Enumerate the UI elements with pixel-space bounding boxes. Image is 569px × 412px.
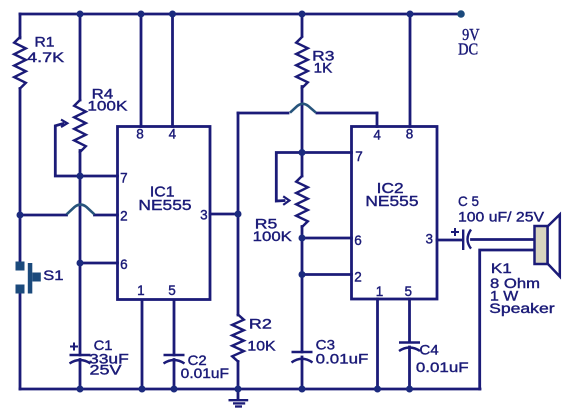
label K1 speaker [489, 260, 555, 316]
svg-text:100 uF/ 25V: 100 uF/ 25V [458, 209, 545, 225]
wire R4 wiper arm [55, 124, 80, 176]
switch S1 [16, 262, 41, 294]
wire pin7 IC1 [80, 175, 118, 178]
wire R4 bottom [79, 151, 82, 177]
node junction ground rail / C4 [406, 386, 413, 393]
wire C5 to speaker [472, 238, 535, 241]
wire pin2 IC2 [302, 273, 352, 276]
label R1 [27, 33, 65, 65]
wire C4 to rail [408, 347, 411, 389]
wire R5 wiper arm [276, 153, 302, 202]
svg-text:7: 7 [120, 170, 128, 185]
svg-text:2: 2 [120, 209, 128, 224]
svg-text:S1: S1 [43, 267, 64, 283]
node junction V+ rail / R4 top [77, 11, 84, 18]
wire pin8 IC2 [409, 14, 412, 127]
svg-text:1: 1 [376, 284, 384, 299]
svg-text:0.01uF: 0.01uF [181, 365, 229, 381]
speaker K1 [535, 215, 560, 277]
node junction C1 / IC1 pin 6 [77, 260, 84, 267]
wire left rail upper [19, 14, 22, 38]
wire pin2 IC2 column to C3 [301, 275, 304, 353]
wire pin4 IC1 [171, 14, 174, 127]
wire pin1 IC2 [376, 299, 379, 389]
svg-text:R2: R2 [249, 316, 272, 332]
svg-text:NE555: NE555 [138, 197, 191, 214]
svg-text:4: 4 [169, 127, 177, 142]
svg-text:8: 8 [136, 127, 144, 142]
svg-text:Speaker: Speaker [489, 300, 555, 316]
resistor R2 [232, 315, 244, 362]
svg-text:0.01uF: 0.01uF [316, 350, 369, 366]
wire R3 to R5 [301, 87, 304, 177]
node junction V+ rail / IC1 pin 8 [138, 11, 145, 18]
capacitor C5 [451, 228, 471, 250]
wire cross link left [238, 112, 288, 115]
svg-text:4.7K: 4.7K [27, 49, 65, 65]
label 9V DC [458, 25, 479, 59]
wire pin6 IC1 [80, 262, 118, 265]
wire node column x238 upper [237, 113, 240, 214]
wire left rail lower [19, 287, 22, 389]
op-amp box IC1 (NE555) [118, 127, 211, 300]
wire R4 top [79, 14, 82, 100]
node 9V supply terminal [457, 10, 465, 18]
svg-text:5: 5 [405, 284, 413, 299]
svg-text:0.01uF: 0.01uF [416, 359, 469, 375]
wire left rail middle [19, 89, 22, 269]
node junction C3 column / IC2 pin 2 [299, 271, 306, 278]
wire pin5 IC1 to C2 [173, 300, 176, 355]
svg-text:K1: K1 [491, 260, 512, 276]
wire R3 top [301, 14, 304, 36]
node junction ground rail / IC2 pin 1 [374, 386, 381, 393]
wire pin6 IC2 [302, 237, 352, 240]
svg-text:NE555: NE555 [365, 193, 418, 210]
svg-text:5: 5 [168, 283, 176, 298]
pot arrow R5 [283, 196, 289, 205]
wire top rail [20, 13, 461, 16]
wire cross link right [317, 112, 377, 115]
svg-text:100K: 100K [253, 228, 293, 244]
svg-text:3: 3 [200, 208, 208, 223]
hop cross-link over R3 column [290, 104, 316, 113]
wire pin2 IC1 right [95, 214, 118, 217]
wire C2 to rail [173, 360, 176, 390]
wire pin8 IC1 [140, 14, 143, 127]
svg-text:100K: 100K [87, 97, 128, 113]
label IC1 [138, 184, 191, 214]
node junction R4 wiper / IC1 pin 7 [77, 173, 84, 180]
svg-text:DC: DC [458, 40, 478, 59]
wire pin3 IC1 [210, 213, 238, 216]
svg-text:C 5: C 5 [458, 193, 479, 209]
capacitor C3 [292, 352, 313, 363]
wire pin4 IC2 [376, 113, 379, 127]
node junction V+ rail / R3 top [299, 11, 306, 18]
node junction ground rail / R2 and ground symbol [235, 386, 242, 393]
wire R5 bottom [301, 227, 304, 275]
label C3 [316, 336, 369, 366]
resistor R4 (pot body) [74, 100, 86, 152]
wire pin7 IC2 [302, 151, 352, 154]
hop pin2-IC1 over R4 column [67, 205, 95, 215]
wire node column x238 to R2 [237, 214, 240, 315]
label C2 [181, 352, 229, 381]
wire pin2 IC1 left [20, 214, 67, 217]
svg-text:7: 7 [355, 149, 363, 164]
svg-text:1K: 1K [314, 60, 333, 76]
wire C3 to rail [301, 357, 304, 389]
label C4 [416, 342, 469, 376]
label R4 [87, 86, 128, 114]
wire R2 to rail [237, 362, 240, 390]
resistor R1 [14, 37, 26, 89]
pot arrow R4 [61, 120, 67, 127]
label R2 [247, 316, 276, 354]
pin labels IC1 [120, 127, 208, 299]
node junction ground rail / C2 [171, 386, 178, 393]
wire speaker return [480, 250, 535, 389]
label R3 [312, 48, 335, 76]
svg-text:2: 2 [354, 270, 362, 285]
svg-text:6: 6 [120, 257, 128, 272]
pin labels IC2 [354, 127, 433, 300]
node junction V+ rail / IC1 pin 4 [169, 11, 176, 18]
capacitor C2 [164, 355, 185, 364]
node junction R5 bottom / IC2 pin 6 [299, 235, 306, 242]
label C5 [458, 193, 545, 225]
capacitor C4 [399, 343, 420, 352]
label R5 [253, 216, 293, 244]
svg-text:25V: 25V [90, 362, 123, 378]
node junction R5 wiper / IC2 pin 7 [299, 149, 306, 156]
label C1 [89, 337, 129, 378]
wire R4-pin7 column [79, 176, 82, 263]
node junction left rail / IC1 pin 2 wire [17, 212, 24, 219]
node junction ground rail / IC1 pin 1 [139, 386, 146, 393]
svg-text:1: 1 [137, 283, 145, 298]
capacitor C1 [70, 343, 91, 364]
resistor R3 [296, 37, 308, 88]
node junction V+ rail / IC2 pin 8 [407, 11, 414, 18]
node junction IC1 pin 3 / R2 column [235, 211, 242, 218]
node junction ground rail / C1 [77, 386, 84, 393]
svg-text:C4: C4 [419, 342, 439, 358]
wire C1 to rail [79, 360, 82, 390]
svg-text:8: 8 [406, 127, 414, 142]
svg-text:3: 3 [426, 232, 434, 247]
wire pin6 column to C1 [79, 263, 82, 355]
wire pin1 IC1 [141, 300, 144, 389]
svg-text:10K: 10K [247, 338, 276, 354]
label IC2 [365, 180, 418, 210]
resistor R5 (pot body) [296, 176, 308, 227]
ground [229, 389, 249, 407]
wire pin3 IC2 [437, 239, 462, 242]
svg-text:6: 6 [354, 233, 362, 248]
node junction ground rail / C3 [299, 386, 306, 393]
wire pin5 IC2 to C4 [408, 299, 411, 342]
svg-text:4: 4 [373, 127, 381, 142]
wire bottom rail [20, 388, 480, 391]
op-amp box IC2 (NE555) [352, 127, 438, 300]
svg-text:R1: R1 [35, 33, 55, 49]
